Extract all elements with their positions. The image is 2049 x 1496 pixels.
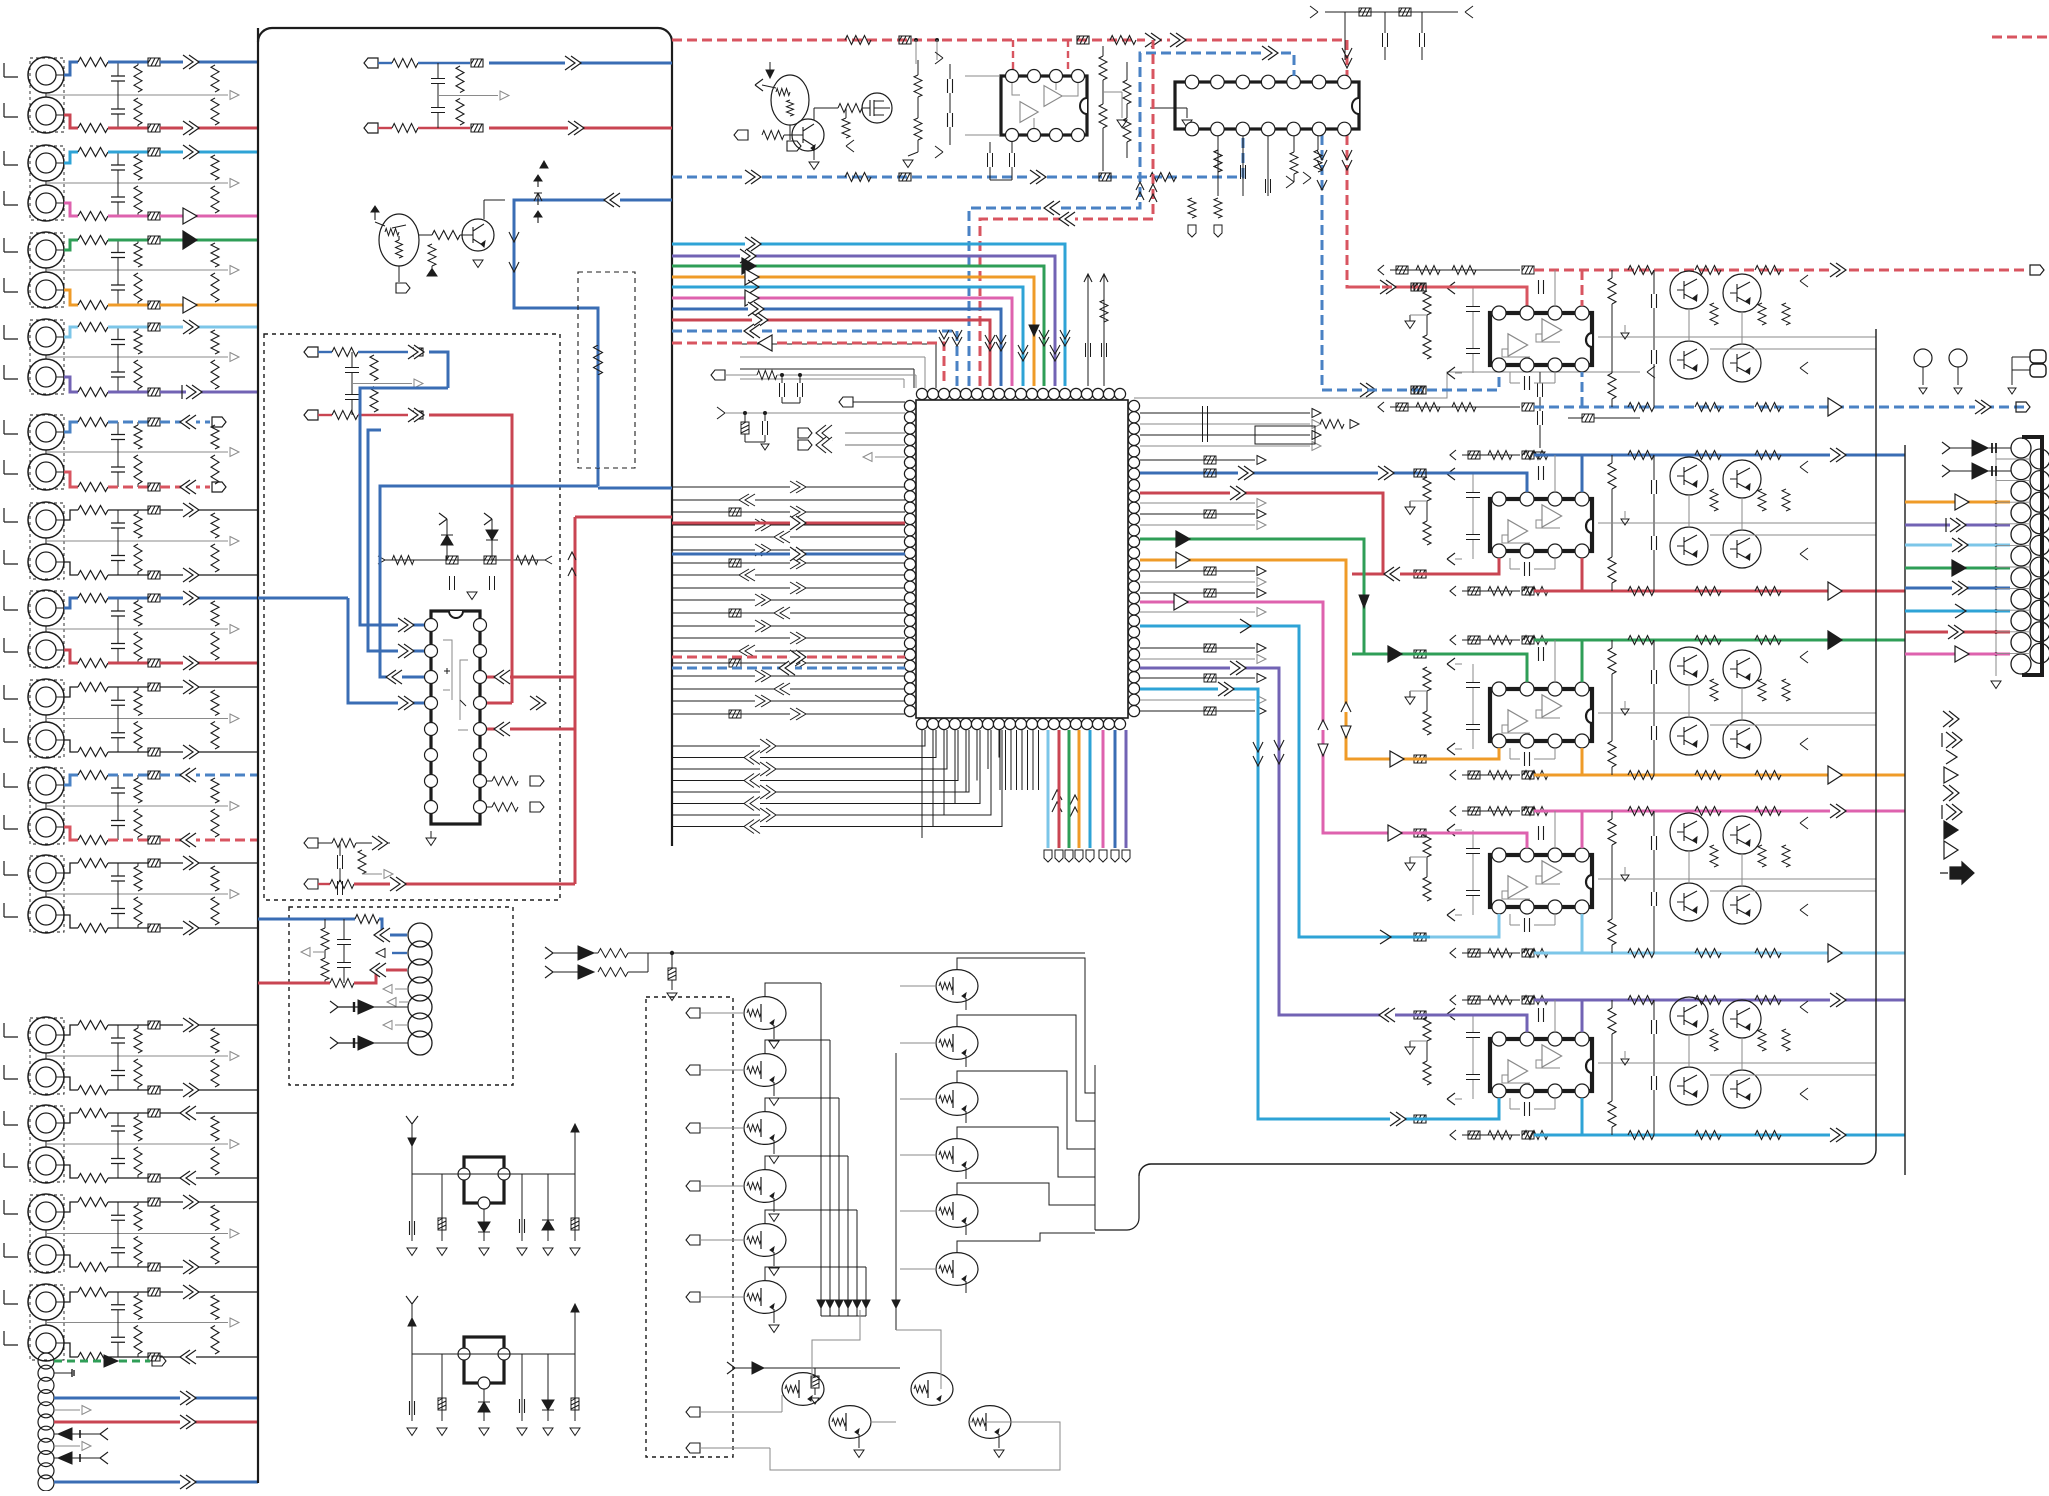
comb wire 676 xyxy=(672,675,905,677)
drop 1115 xyxy=(1114,730,1117,848)
bracket xyxy=(4,773,18,787)
comb wire 588 xyxy=(672,587,905,589)
ferrite bead xyxy=(148,571,160,579)
filter network resistors xyxy=(134,155,142,180)
bracket xyxy=(4,325,18,339)
bracket xyxy=(4,151,18,165)
DSP right black pin wires xyxy=(1140,412,1310,414)
filter network caps xyxy=(111,788,125,793)
ferrite bead xyxy=(148,58,160,66)
wire #de62ae from J2b xyxy=(64,203,78,216)
wire #1c1c1c from J12a xyxy=(64,1113,78,1123)
drop 1069 xyxy=(1068,730,1071,848)
DSP pins bottom xyxy=(916,718,927,729)
RCA jack J9b xyxy=(28,809,64,845)
res stack xyxy=(842,118,850,138)
U1 opamps xyxy=(1020,102,1038,123)
IC U3 body xyxy=(431,611,480,824)
comb wire 563 xyxy=(672,562,905,564)
stub lug xyxy=(212,482,226,492)
comb wire 500 xyxy=(672,499,905,501)
U6 pin xyxy=(1520,492,1534,506)
bracket xyxy=(4,685,18,699)
filter caps xyxy=(1652,294,1657,308)
output connector CN20 bracket xyxy=(2022,437,2042,675)
transistor Q1 xyxy=(379,214,419,266)
transistor Q2 xyxy=(462,219,494,251)
U8 pin xyxy=(1520,848,1534,862)
U9 pin xyxy=(1548,1032,1562,1046)
left bus xyxy=(257,28,259,1483)
U2 pin xyxy=(1338,75,1352,89)
arrows xyxy=(398,618,414,632)
bottom lugs xyxy=(1044,850,1052,862)
U9 input wire bottom #2ea3d6 xyxy=(1352,1098,1499,1119)
bundle wire y287 xyxy=(672,287,1023,386)
base resistor xyxy=(432,231,460,240)
bundle wire y244 xyxy=(672,244,1065,386)
U2 pin xyxy=(1287,75,1301,89)
transistor Q3 top xyxy=(771,75,809,125)
DSP pins right xyxy=(1128,400,1139,411)
osc left leg xyxy=(411,1304,413,1354)
arrow xyxy=(183,568,199,582)
bus diode xyxy=(826,1300,834,1308)
arrow xyxy=(183,231,197,249)
stub arrow2 xyxy=(383,1021,392,1030)
wire #1c1c1c from J14b xyxy=(64,1343,78,1357)
arrow out top xyxy=(1828,631,1842,649)
U7 pin xyxy=(1520,682,1534,696)
ferrite bead xyxy=(148,1288,160,1296)
mute bus verticals xyxy=(820,983,822,1296)
test point TP2 xyxy=(1949,349,1967,367)
base wire xyxy=(900,1042,936,1044)
connector group CN12 frame xyxy=(30,1106,64,1182)
connector group CN11 frame xyxy=(30,1018,64,1094)
bracket xyxy=(4,1200,18,1214)
collector wire right xyxy=(957,1241,979,1253)
terminating resistor xyxy=(211,1295,219,1320)
U1 pin xyxy=(1050,70,1063,83)
drop 1126 xyxy=(1125,730,1128,848)
bus diode xyxy=(862,1300,870,1308)
transistor QM6 xyxy=(744,1281,786,1314)
U9 pin xyxy=(1575,1032,1589,1046)
arrow xyxy=(183,503,199,517)
power transistor Q1b xyxy=(1723,274,1761,312)
U2 pin xyxy=(1185,75,1199,89)
power transistor Q3c xyxy=(1670,717,1708,755)
wire #1c1c1c from J8b xyxy=(64,740,78,752)
wire shield mid xyxy=(45,626,47,632)
emitter resistor xyxy=(428,244,436,266)
series resistor xyxy=(78,683,108,692)
U5 opamp triangles xyxy=(1508,334,1528,356)
amp block U7 pre-network xyxy=(1423,667,1431,691)
arrow xyxy=(180,480,196,494)
ferrite bead xyxy=(148,1198,160,1206)
diode feed row 1 xyxy=(545,947,553,959)
arrow xyxy=(183,1195,199,1209)
wire red DSP to U6 xyxy=(1140,493,1383,574)
comb wire 487 xyxy=(672,486,905,488)
U8 output bottom wire xyxy=(1462,952,1520,954)
bundle wire y320 xyxy=(672,320,990,386)
comb wire 512 xyxy=(672,511,905,513)
wire blue DSP to U6 xyxy=(1140,472,1352,475)
dashed blue U2 to amp1 xyxy=(1322,135,1499,390)
wire #1c1c1c from J10b xyxy=(64,915,78,928)
U7 output top wire xyxy=(1462,639,1520,641)
wire shield mid xyxy=(45,803,47,809)
block1 out stubs xyxy=(2030,265,2044,275)
wire #7cc6e8 from J4a xyxy=(64,327,78,337)
emitter gnd xyxy=(773,1198,775,1212)
amp block U6 pre-network xyxy=(1423,477,1431,501)
transistor QMb xyxy=(911,1373,953,1406)
ferrite bead xyxy=(148,659,160,667)
transistor QMb xyxy=(782,1373,824,1406)
right divider xyxy=(1123,80,1131,104)
RCA jack J8b xyxy=(28,722,64,758)
series resistor xyxy=(78,571,108,580)
terminating resistor xyxy=(211,155,219,180)
inter caps xyxy=(1539,647,1544,661)
base wire xyxy=(900,1210,936,1212)
wire green dashed xyxy=(54,1360,150,1363)
emitter down xyxy=(965,1281,967,1293)
diode stub 1 xyxy=(1942,442,1950,454)
osc zener xyxy=(441,1354,443,1421)
bias resistors xyxy=(1710,679,1718,701)
transistor QM11 xyxy=(936,1195,978,1228)
transistor QM2 xyxy=(744,1054,786,1087)
ferrite bead xyxy=(148,388,160,396)
stub arrow xyxy=(387,998,396,1007)
U8 opamp triangles xyxy=(1508,876,1528,898)
series resistor xyxy=(78,748,108,757)
power transistor Q5a xyxy=(1670,997,1708,1035)
U8 input wire bottom #7cc6e8 xyxy=(1352,914,1499,937)
U9 output top wire xyxy=(1462,999,1520,1001)
stub xyxy=(398,266,400,282)
terminating resistor xyxy=(211,690,219,716)
filter network resistors xyxy=(134,330,142,354)
power transistor Q1a xyxy=(1670,271,1708,309)
U1 wiring xyxy=(1012,83,1078,128)
IC U3 pins right xyxy=(474,619,487,632)
bracket xyxy=(4,728,18,742)
ferrite bead xyxy=(148,771,160,779)
RCA jack J2a xyxy=(28,145,64,181)
op-amp U8 body xyxy=(1490,855,1592,907)
wire shield mid xyxy=(45,268,47,272)
connector group CN1 frame xyxy=(30,58,64,132)
series resistor xyxy=(78,301,108,310)
IC output wires red xyxy=(487,676,575,679)
pull resistors xyxy=(492,777,518,786)
comb dashed blue xyxy=(672,667,905,670)
wire #1c1c1c from J12b xyxy=(64,1165,78,1178)
base wire xyxy=(900,1154,936,1156)
wire red xyxy=(54,1421,258,1424)
power transistor Q4d xyxy=(1723,886,1761,924)
U6 output bottom wire xyxy=(1462,590,1520,592)
connector group CN5 frame xyxy=(30,415,64,489)
bracket xyxy=(4,460,18,474)
op-amp U5 body xyxy=(1490,313,1592,365)
arrow xyxy=(180,833,196,847)
bottom stub row 1 xyxy=(304,838,318,848)
osc bead right xyxy=(574,1124,576,1241)
series resistor xyxy=(78,659,108,668)
filter network caps xyxy=(111,1126,125,1131)
emitter down xyxy=(965,1111,967,1123)
arrow out bottom xyxy=(1828,398,1842,416)
series resistor xyxy=(78,148,108,157)
RCA jack J1b xyxy=(28,97,64,133)
box resistor net xyxy=(1255,426,1315,444)
wire #7263b4 from J4b xyxy=(64,377,78,392)
RCA jack J7b xyxy=(28,632,64,668)
bus diode xyxy=(853,1300,861,1308)
bundle wire y331 xyxy=(672,331,957,386)
bias line xyxy=(385,559,545,561)
diode stub 2 xyxy=(1942,465,1950,477)
U7 output bottom wire xyxy=(1462,774,1520,776)
short link lines xyxy=(1996,458,2030,460)
ferrite bead xyxy=(148,748,160,756)
bracket xyxy=(4,238,18,252)
U2 pin xyxy=(1261,75,1275,89)
ferrite bead xyxy=(148,836,160,844)
terminating resistor xyxy=(211,330,219,354)
RCA jack J13b xyxy=(28,1237,64,1273)
amp block U8 pre-network xyxy=(1423,833,1431,857)
marker xyxy=(540,161,548,168)
terminating resistor xyxy=(211,866,219,891)
gnd xyxy=(430,831,432,838)
test point TP1 xyxy=(1914,349,1932,367)
ferrite bead xyxy=(148,683,160,691)
U7 input wire bottom #ef9b28 xyxy=(1352,748,1499,759)
series resistor xyxy=(78,418,108,427)
stub blue small xyxy=(392,952,407,954)
RCA jack J1a xyxy=(28,57,64,93)
stub arrow xyxy=(54,1445,80,1447)
emitter down xyxy=(965,998,967,1010)
series resistor xyxy=(78,1086,108,1095)
arrow xyxy=(183,55,199,69)
ferrite bead xyxy=(148,212,160,220)
wire #1c1c1c from J11a xyxy=(64,1025,78,1035)
filter network caps xyxy=(111,700,125,705)
diode feed row 2 xyxy=(545,966,553,978)
series resistor xyxy=(78,236,108,245)
stub lugs xyxy=(1188,198,1196,218)
small arrow xyxy=(863,453,872,462)
arrow xyxy=(186,385,202,399)
rail junction drops xyxy=(914,38,918,42)
bracket xyxy=(4,638,18,652)
filter network caps xyxy=(111,165,125,170)
ferrite bead xyxy=(148,483,160,491)
gnd xyxy=(1182,120,1192,128)
comb wire 663 xyxy=(672,662,905,664)
gnd emitters xyxy=(858,1434,860,1448)
wire #1c1c1c from J13a xyxy=(64,1202,78,1212)
base wire xyxy=(900,1268,936,1270)
clamp diode pair xyxy=(439,513,447,525)
U8 output top wire xyxy=(1462,810,1520,812)
power transistor Q4c xyxy=(1670,883,1708,921)
bracket xyxy=(4,1023,18,1037)
dashed box resistor xyxy=(578,272,635,468)
gnd small xyxy=(1621,519,1629,525)
connector group CN10 frame xyxy=(30,856,64,932)
emitter resistors xyxy=(1608,819,1616,845)
arrow xyxy=(183,145,199,159)
bus diode xyxy=(817,1300,825,1308)
stub #3a6db4 xyxy=(1905,587,2010,590)
osc diode right xyxy=(547,1174,549,1241)
stub #2f9e57 xyxy=(1905,567,2010,570)
stub diode xyxy=(54,1433,100,1435)
transistor Q4 top xyxy=(792,119,824,151)
U6 pin xyxy=(1492,492,1506,506)
series resistor xyxy=(78,58,108,67)
rails xyxy=(1598,522,1876,524)
U6 opamp triangles xyxy=(1508,520,1528,542)
collector wire right xyxy=(957,1127,979,1139)
U1 pin xyxy=(1072,70,1085,83)
rails xyxy=(1598,336,1876,338)
RCA jack J14b xyxy=(28,1325,64,1361)
lug stubs xyxy=(798,428,812,438)
top right dashed red fragment xyxy=(1992,36,2049,39)
arrow xyxy=(408,345,424,359)
wire blue to CN16 xyxy=(258,918,355,921)
bundle wire y343 xyxy=(672,343,944,386)
drop 1090 xyxy=(1089,730,1092,848)
collector wire xyxy=(765,983,821,997)
series resistor xyxy=(78,1263,108,1272)
top cap network xyxy=(1325,11,1458,13)
filter network resistors xyxy=(134,778,142,803)
ferrite bead xyxy=(471,59,483,67)
connector group CN2 frame xyxy=(30,146,64,220)
comb wire 651 xyxy=(672,650,905,652)
comb wire 638 xyxy=(672,637,905,639)
series resistor xyxy=(78,836,108,845)
wire orange DSP to U7 xyxy=(1140,560,1430,759)
wire #1c1c1c from J10a xyxy=(64,863,78,873)
ferrite bead xyxy=(148,1263,160,1271)
arrow xyxy=(183,1260,199,1274)
op-amp U6 body xyxy=(1490,499,1592,551)
bracket xyxy=(4,1290,18,1304)
comb wire 537 xyxy=(672,536,905,538)
wire #ef9b28 from J3b xyxy=(64,290,78,305)
wire cyan DSP to U9 xyxy=(1140,689,1499,1119)
U9 output bottom wire xyxy=(1462,1134,1520,1136)
U5 output bottom wire xyxy=(1390,406,1520,408)
supply bead xyxy=(670,951,674,955)
op-amp U2 body xyxy=(1175,82,1359,129)
series resistor xyxy=(78,1021,108,1030)
filter network caps xyxy=(111,1215,125,1220)
U2 pin xyxy=(1236,75,1250,89)
aux connector xyxy=(2030,350,2046,363)
bus diode xyxy=(844,1300,852,1308)
filter caps xyxy=(1652,670,1657,684)
wire shield mid xyxy=(45,181,47,185)
U1 pin xyxy=(1028,70,1041,83)
wire #1c1c1c from J11b xyxy=(64,1077,78,1090)
base stub xyxy=(686,1065,700,1075)
links2 xyxy=(870,1421,896,1423)
DSP bottom bus lines xyxy=(999,730,1001,790)
ferrite bead xyxy=(148,148,160,156)
wire #1c1c1c from J6a xyxy=(64,510,78,520)
power transistor Q5b xyxy=(1723,1000,1761,1038)
dashed red top rail xyxy=(672,40,1347,76)
osc diode mid xyxy=(483,1389,485,1421)
arrow xyxy=(183,121,199,135)
dashed blue rail xyxy=(672,135,1243,177)
comb red xyxy=(672,522,905,525)
filter network caps xyxy=(111,340,125,345)
transistor QM1 xyxy=(744,997,786,1030)
filter network resistors xyxy=(134,601,142,626)
wire blue bottom xyxy=(54,1481,258,1484)
RCA jack J11a xyxy=(28,1017,64,1053)
stub #7cc6e8 xyxy=(1905,544,2010,547)
series resistor xyxy=(78,212,108,221)
power transistor Q2b xyxy=(1723,460,1761,498)
bracket xyxy=(4,191,18,205)
power transistor Q5c xyxy=(1670,1067,1708,1105)
ferrite bead xyxy=(148,323,160,331)
arrow xyxy=(183,656,199,670)
emitter resistors xyxy=(1608,1008,1616,1034)
transistor QMb2 xyxy=(829,1406,871,1439)
ferrite bead xyxy=(148,1109,160,1117)
ferrite bead xyxy=(148,418,160,426)
drop 1079 xyxy=(1078,730,1081,848)
osc cap right xyxy=(521,1174,523,1241)
op-amp U9 body xyxy=(1490,1039,1592,1091)
U8 input wire top #de62ae xyxy=(1352,833,1527,848)
bracket xyxy=(4,550,18,564)
ferrite bead xyxy=(411,411,423,419)
wire green DSP to U7 xyxy=(1140,539,1430,654)
collector wire xyxy=(483,200,485,219)
filter network caps xyxy=(111,611,125,616)
diode stubs xyxy=(330,1001,338,1013)
bracket xyxy=(4,365,18,379)
power stubs xyxy=(1087,275,1089,386)
comb wire 701 xyxy=(672,700,905,702)
arrow xyxy=(180,415,196,429)
wire #3a6db4 from J1a xyxy=(64,62,78,75)
power transistor Q3a xyxy=(1670,647,1708,685)
filter network resistors xyxy=(134,1295,142,1320)
RCA jack J12a xyxy=(28,1105,64,1141)
U9 pin xyxy=(1492,1032,1506,1046)
power transistor Q4a xyxy=(1670,813,1708,851)
